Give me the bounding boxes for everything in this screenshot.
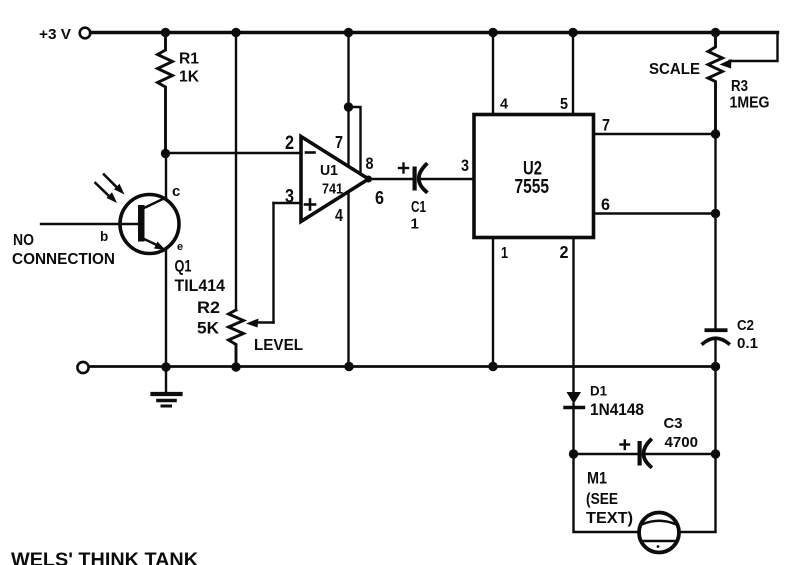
potentiometer R2 5K [197,203,274,367]
wire M1 loop left [574,454,640,532]
svg-text:1: 1 [501,245,508,262]
capacitor C3 4700 [574,415,716,467]
node D1 / C3 / M1 [569,449,578,458]
svg-text:7555: 7555 [515,176,550,198]
node R2 top rail [231,28,240,37]
svg-text:CONNECTION: CONNECTION [12,251,115,268]
svg-text:TIL414: TIL414 [175,276,226,295]
svg-text:4: 4 [500,96,509,113]
node R1 top [161,28,170,37]
transistor Q1 phototransistor [41,154,179,367]
node op-amp output [365,176,372,183]
svg-text:M1: M1 [587,470,607,488]
node pin6 R3 [711,209,720,218]
wire M1 loop right [679,454,716,532]
svg-text:D1: D1 [590,383,607,399]
capacitor C1 [399,164,474,233]
op-amp U1 741 [301,137,369,222]
light arrow 2 [96,183,118,203]
svg-text:8: 8 [366,155,374,173]
svg-text:+3 V: +3 V [39,26,71,43]
capacitor C2 [703,318,758,367]
wire U2 pin 4 to rail [492,33,494,115]
terminal bottom left [77,362,88,373]
svg-text:NO: NO [13,232,34,249]
wire U2 pin 1 to ground rail [492,238,494,367]
svg-text:TEXT): TEXT) [586,510,633,527]
node C3 right / C2 line [711,449,720,458]
wire op-amp pin 4 to ground rail [347,192,349,367]
svg-text:C3: C3 [664,415,683,432]
node U2 pin1 ground [488,362,497,371]
wire R3 to C2 [714,134,716,329]
wire U2 pin 6 to R3 line [594,212,716,214]
svg-text:4700: 4700 [665,434,699,451]
node U2 pin4 rail [488,28,497,37]
svg-text:0.1: 0.1 [737,336,758,352]
wire strap pin7 to pin8 [349,107,361,174]
node C2 ground [711,362,720,371]
svg-text:R2: R2 [197,299,220,317]
svg-text:WELS' THINK TANK: WELS' THINK TANK [11,549,198,565]
wire node to op-amp pin2 [166,152,302,154]
svg-text:1: 1 [411,216,419,233]
svg-text:b: b [100,229,108,244]
node R3 top rail [711,28,720,37]
svg-text:C2: C2 [737,318,754,334]
wire ground rail [89,365,716,368]
node R2 bottom [231,362,240,371]
svg-text:c: c [172,183,180,200]
node pin7 strap [344,102,353,111]
svg-text:3: 3 [285,187,294,208]
svg-text:7: 7 [602,117,610,135]
svg-text:7: 7 [335,132,343,152]
svg-text:Q1: Q1 [175,258,192,276]
IC U2 7555 [474,115,594,238]
wire +3V to R2 top [235,33,237,311]
wire op-amp pin 7 to rail [347,33,349,167]
wire C2 ground node to C3 node [714,367,716,455]
diode D1 1N4148 [565,383,644,455]
wire U2 pin 5 to rail [572,33,574,115]
wire U2 pin 7 to R3 line [594,133,716,135]
wire U2 pin 2 down to D1 [572,238,574,393]
svg-text:3: 3 [461,156,469,175]
svg-text:6: 6 [601,195,610,214]
light arrow 1 [104,175,125,195]
wire R2 wiper to op-amp pin3 [274,202,302,204]
svg-text:R3: R3 [731,78,748,95]
svg-text:C1: C1 [411,199,426,216]
svg-text:741: 741 [322,181,343,198]
svg-text:5K: 5K [197,320,219,338]
wire top +3V rail [91,31,778,34]
svg-text:e: e [177,241,183,253]
svg-text:1N4148: 1N4148 [590,401,644,419]
svg-text:2: 2 [560,242,569,262]
label Q1 pins c b e [100,183,183,253]
label Q1 TIL414 [175,258,226,296]
svg-text:5: 5 [560,96,568,113]
resistor R1 [158,33,200,154]
svg-text:1K: 1K [179,69,199,86]
svg-text:(SEE: (SEE [586,491,618,508]
svg-text:4: 4 [335,205,343,225]
node ground symbol [161,362,170,371]
node op-amp pin4 ground [344,362,353,371]
label M1 (SEE TEXT) [586,470,633,528]
svg-text:2: 2 [285,133,294,154]
svg-text:LEVEL: LEVEL [254,337,303,354]
potentiometer R3 1MEG [708,33,778,135]
ground symbol [153,367,181,406]
terminal +3V [39,26,90,43]
node op-amp supply rail [344,28,353,37]
svg-text:6: 6 [375,188,384,208]
node pin7 R3 [711,129,720,138]
svg-text:SCALE: SCALE [649,61,700,78]
motor M1 [639,513,679,553]
node U2 pin5 rail [568,28,577,37]
svg-text:R1: R1 [179,51,199,68]
label NO CONNECTION [12,232,115,268]
wire op-amp output to C1 [369,178,413,180]
svg-text:U1: U1 [320,162,338,179]
node R1 / Q1 collector / op-amp pin2 [161,149,170,158]
svg-text:1MEG: 1MEG [730,95,770,112]
